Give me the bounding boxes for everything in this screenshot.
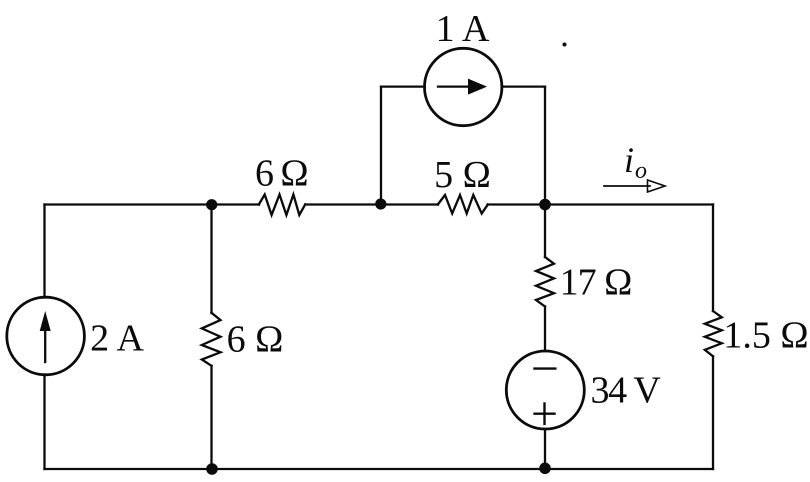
- wire left branch lower: [43, 375, 45, 470]
- node at 1A right junction: [539, 199, 551, 211]
- wire 6ohm mid branch upper: [210, 205, 212, 314]
- wire 1A loop right vertical: [544, 87, 546, 205]
- resistor 5 ohm horizontal: [438, 195, 488, 214]
- svg-text:17 Ω: 17 Ω: [560, 262, 632, 304]
- svg-text:5 Ω: 5 Ω: [434, 154, 491, 196]
- arrow i_o: [604, 185, 650, 187]
- wire 17ohm branch top: [544, 205, 546, 258]
- wire top rail left segment: [45, 203, 260, 205]
- arrow of 1A source: [438, 85, 471, 87]
- wire left branch upper: [43, 205, 45, 298]
- voltage source 34V: [506, 351, 584, 429]
- wire 1A loop left vertical: [380, 87, 382, 205]
- wire right branch lower: [712, 356, 714, 469]
- resistor 6 ohm horizontal: [259, 195, 305, 216]
- svg-text:1 A: 1 A: [436, 8, 490, 50]
- node bottom left: [206, 463, 218, 475]
- current source 1A: [425, 48, 502, 125]
- wire 34V source to bottom: [544, 429, 546, 469]
- wire right branch upper: [712, 205, 714, 312]
- arrow of 2A source: [44, 330, 46, 362]
- svg-text:1.5 Ω: 1.5 Ω: [723, 315, 808, 357]
- resistor 17 ohm vertical: [536, 257, 554, 307]
- wire 1A loop right horizontal: [502, 85, 545, 87]
- wire bottom rail: [45, 468, 714, 470]
- node bottom right: [539, 463, 551, 475]
- svg-text:6 Ω: 6 Ω: [255, 153, 307, 195]
- svg-text:34 V: 34 V: [590, 370, 661, 412]
- node at left 6ohm top junction: [206, 199, 217, 210]
- resistor 1.5 ohm vertical: [705, 311, 722, 356]
- minus sign inside 34V: [535, 367, 556, 369]
- wire 6ohm mid branch lower: [210, 366, 212, 469]
- svg-text:6 Ω: 6 Ω: [227, 319, 284, 361]
- plus sign inside 34V: [535, 413, 555, 415]
- wire 1A loop left horizontal: [381, 85, 425, 87]
- wire top rail middle segment: [305, 203, 438, 205]
- resistor 6 ohm vertical: [202, 313, 221, 366]
- speck artifact: [563, 43, 567, 47]
- node at 1A left junction: [375, 198, 386, 209]
- current source 2A: [7, 297, 85, 375]
- wire top rail right segment: [488, 203, 713, 205]
- wire between 17ohm and 34V source: [544, 307, 546, 352]
- svg-text:o: o: [635, 158, 647, 184]
- svg-text:2 A: 2 A: [90, 318, 144, 360]
- svg-text:i: i: [624, 140, 634, 180]
